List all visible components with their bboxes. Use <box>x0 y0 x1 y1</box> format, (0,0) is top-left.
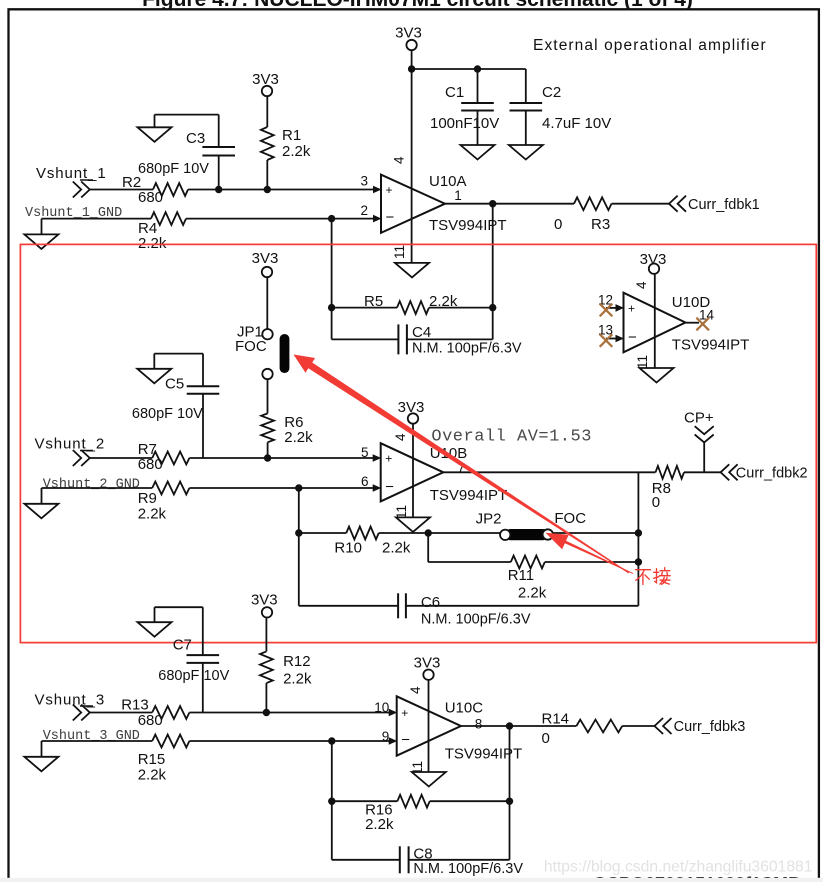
wire C3 to ground bend <box>155 115 219 147</box>
svg-text:3V3: 3V3 <box>252 250 279 267</box>
wire pin12 stub <box>606 307 616 309</box>
power 3V3 (JP1) <box>252 250 279 277</box>
svg-text:Vshunt_1: Vshunt_1 <box>36 165 107 182</box>
red annotation box <box>20 244 816 642</box>
svg-text:2.2k: 2.2k <box>138 767 167 784</box>
resistor R16 <box>365 795 430 833</box>
svg-text:FOC: FOC <box>235 338 267 355</box>
wire R5 row <box>332 307 493 309</box>
junction rail-left <box>408 65 415 72</box>
resistor R6 <box>261 413 313 446</box>
svg-text:+: + <box>628 301 635 315</box>
svg-text:C5: C5 <box>165 376 184 393</box>
wire pin9 row <box>42 740 390 742</box>
pin 4 label U10C <box>408 686 423 694</box>
junction feedback pin9 <box>328 737 335 744</box>
svg-text:R14: R14 <box>542 711 570 728</box>
capacitor C4 <box>398 324 522 357</box>
svg-text:3V3: 3V3 <box>395 25 422 42</box>
no-connect X pin14 <box>696 318 709 331</box>
resistor R14 <box>542 711 623 748</box>
wire power pin U10B <box>412 424 414 518</box>
wire feedback right vert 2 <box>637 472 639 606</box>
capacitor C8 <box>400 846 524 878</box>
junction R16 left <box>328 798 335 805</box>
svg-text:2.2k: 2.2k <box>282 143 311 160</box>
red note text <box>636 568 671 585</box>
svg-text:−: − <box>628 329 637 346</box>
svg-text:4: 4 <box>392 156 407 164</box>
power 3V3 (R12) <box>251 592 278 618</box>
resistor R1 <box>261 127 311 160</box>
svg-text:680: 680 <box>138 189 163 206</box>
node Vshunt_3 <box>35 691 106 708</box>
ground C5 <box>137 369 171 384</box>
op-amp U10A <box>360 173 506 234</box>
svg-text:8: 8 <box>475 717 483 732</box>
svg-text:680pF 10V: 680pF 10V <box>158 668 229 684</box>
svg-text:680pF 10V: 680pF 10V <box>138 161 209 177</box>
svg-text:4: 4 <box>408 686 423 694</box>
junction R12 bottom <box>263 709 270 716</box>
wire C1 drop <box>477 69 479 103</box>
svg-text:TSV994IPT: TSV994IPT <box>429 217 507 234</box>
node Vshunt_2 <box>35 436 106 453</box>
title (clipped at top) <box>142 0 693 11</box>
node CP+ <box>684 410 714 427</box>
ground U10B pin11 <box>396 517 430 532</box>
wire feedback left vert 2 <box>298 488 300 606</box>
resistor R10 <box>334 527 410 557</box>
svg-text:N.M. 100pF/6.3V: N.M. 100pF/6.3V <box>412 341 522 357</box>
svg-text:R10: R10 <box>334 540 362 557</box>
ground Vshunt_3_GND <box>24 757 58 772</box>
svg-text:C3: C3 <box>186 130 205 147</box>
wire C4 row <box>332 338 493 340</box>
wire pin3 row <box>90 189 374 191</box>
junction R16 right <box>506 798 513 805</box>
red arrow to JP2 <box>546 533 634 574</box>
wire pin10 row <box>90 712 389 714</box>
ground Vshunt_2_GND <box>24 504 58 519</box>
junction R5 right <box>489 304 496 311</box>
ground C1 <box>461 145 495 160</box>
ground Vshunt_1_GND <box>24 234 58 249</box>
connector Vshunt_1 <box>73 182 90 198</box>
resistor R4 <box>138 212 186 252</box>
svg-text:TSV994IPT: TSV994IPT <box>672 337 750 354</box>
wire pin2 row <box>42 218 374 220</box>
svg-text:N.M. 100pF/6.3V: N.M. 100pF/6.3V <box>421 612 531 628</box>
svg-text:N.M. 100pF/6.3V: N.M. 100pF/6.3V <box>413 861 523 877</box>
pin 11 label U10C <box>410 761 425 775</box>
junction JP2 right <box>635 529 642 536</box>
wire feedback right vert 1 <box>492 204 494 340</box>
wire R1 bottom <box>266 160 268 190</box>
svg-text:R11: R11 <box>508 567 534 584</box>
svg-text:−: − <box>401 732 410 749</box>
junction output U10A <box>489 200 496 207</box>
svg-text:−: − <box>386 209 395 226</box>
wire power pin U10C <box>428 680 430 772</box>
junction R1 tap <box>264 186 271 193</box>
svg-text:FOC: FOC <box>554 510 586 527</box>
svg-text:Figure 4.7: NUCLEO-IHM07M1 cir: Figure 4.7: NUCLEO-IHM07M1 circuit schem… <box>142 0 693 11</box>
svg-text:3V3: 3V3 <box>398 399 425 416</box>
svg-text:2.2k: 2.2k <box>284 429 313 446</box>
svg-text:4.7uF 10V: 4.7uF 10V <box>542 115 611 132</box>
svg-text:1: 1 <box>454 188 462 203</box>
wire output U10B <box>443 471 720 473</box>
wire R6 bottom <box>267 442 269 458</box>
no-connect X pin12 <box>600 304 613 317</box>
svg-text:3V3: 3V3 <box>640 251 667 268</box>
junction R10 right <box>425 529 432 536</box>
wire R11 drop <box>427 533 429 562</box>
resistor R15 <box>138 735 190 784</box>
wire C7 to ground bend <box>155 607 203 655</box>
svg-text:2.2k: 2.2k <box>138 506 167 523</box>
capacitor C1 <box>430 84 499 132</box>
svg-text:3: 3 <box>360 174 368 189</box>
wire C1 to ground <box>477 111 479 146</box>
bottom page strip <box>0 878 823 882</box>
svg-text:Curr_fdbk2: Curr_fdbk2 <box>736 466 808 482</box>
wire output U10C <box>461 725 655 727</box>
wire to ground 1 <box>41 219 43 235</box>
wire 3V3 to rail <box>411 50 413 69</box>
node Vshunt_3_GND <box>43 729 140 744</box>
jumper JP2 <box>476 510 587 540</box>
connector Vshunt_2 <box>73 450 90 466</box>
wire C5 to ground bend <box>154 354 203 387</box>
pin 11 label U10D <box>635 355 650 369</box>
connector Curr_fdbk1 <box>669 196 760 213</box>
svg-text:3V3: 3V3 <box>252 71 279 88</box>
svg-text:2.2k: 2.2k <box>283 671 312 688</box>
svg-text:R1: R1 <box>282 127 301 144</box>
junction R6 bottom <box>264 454 271 461</box>
svg-text:11: 11 <box>392 245 407 259</box>
wire to ground 2 <box>41 488 43 504</box>
op-amp U10B <box>361 443 507 504</box>
svg-text:+: + <box>385 452 392 466</box>
power 3V3 (rail) <box>395 25 422 51</box>
svg-text:2.2k: 2.2k <box>138 235 167 252</box>
pin 11 label U10B <box>394 505 409 519</box>
wire pin6 row <box>42 487 374 489</box>
svg-text:4: 4 <box>393 433 408 441</box>
capacitor C5 <box>132 376 219 422</box>
wire power pin U10A <box>411 69 413 263</box>
resistor R8 <box>652 466 684 511</box>
resistor R12 <box>260 651 312 687</box>
node Vshunt_2_GND <box>43 478 140 493</box>
node Vshunt_1 <box>36 165 107 182</box>
connector Vshunt_3 <box>73 705 90 721</box>
node Vshunt_1_GND <box>25 206 122 221</box>
junction R11 right <box>635 558 642 565</box>
op-amp U10C <box>374 696 522 762</box>
svg-text:R3: R3 <box>591 216 610 233</box>
wire to ground 3 <box>41 741 43 757</box>
red arrow to JP1 <box>294 355 630 574</box>
junction R5 left <box>328 304 335 311</box>
ground C2 <box>509 145 543 160</box>
svg-text:10: 10 <box>374 700 389 715</box>
svg-text:680: 680 <box>138 456 163 473</box>
svg-text:JP2: JP2 <box>476 511 502 528</box>
resistor R11 <box>508 556 547 602</box>
capacitor C7 <box>158 637 229 685</box>
no-connect X pin13 <box>600 334 613 347</box>
svg-text:C6: C6 <box>421 594 440 611</box>
wire R12 bottom <box>265 683 267 712</box>
svg-text:2.2k: 2.2k <box>518 585 547 602</box>
svg-text:External operational amplifier: External operational amplifier <box>533 37 767 54</box>
svg-text:6: 6 <box>361 474 369 489</box>
wire pin13 stub <box>606 338 616 340</box>
svg-text:C7: C7 <box>173 637 192 654</box>
jumper JP1 <box>235 324 289 380</box>
ground C3 <box>138 127 172 142</box>
svg-text:11: 11 <box>635 355 650 369</box>
wire C6 row <box>299 605 639 607</box>
svg-text:+: + <box>386 183 393 197</box>
svg-text:CP+: CP+ <box>684 410 714 427</box>
connector Curr_fdbk2 <box>721 464 808 481</box>
svg-text:C8: C8 <box>413 846 432 863</box>
wire feedback left vert 3 <box>331 741 333 860</box>
junction C1 tap <box>474 65 481 72</box>
wire C2 drop <box>525 69 527 103</box>
resistor R13 <box>121 697 189 730</box>
svg-text:TSV994IPT: TSV994IPT <box>445 746 523 763</box>
svg-text:2.2k: 2.2k <box>365 816 394 833</box>
svg-text:Curr_fdbk3: Curr_fdbk3 <box>674 719 746 735</box>
wire C8 row <box>332 859 510 861</box>
junction feedback pin6 <box>295 484 302 491</box>
capacitor C3 <box>138 130 235 177</box>
junction feedback pin2 <box>328 215 335 222</box>
svg-text:TSV994IPT: TSV994IPT <box>430 487 508 504</box>
svg-text:R13: R13 <box>121 697 149 714</box>
pin 4 label U10A <box>392 156 407 164</box>
power 3V3 (R1) <box>252 71 279 96</box>
connector Curr_fdbk3 <box>655 718 746 735</box>
ground U10D pin11 <box>640 368 674 383</box>
wire R11 row <box>428 561 638 563</box>
svg-text:C4: C4 <box>412 324 431 341</box>
note Overall AV <box>431 428 592 447</box>
junction C3 tap <box>215 186 222 193</box>
connector CP+ <box>695 426 714 442</box>
svg-text:Curr_fdbk1: Curr_fdbk1 <box>688 197 760 213</box>
svg-text:0: 0 <box>554 216 562 233</box>
power 3V3 (U10C) <box>414 655 441 680</box>
wire R10 row <box>299 532 639 534</box>
ground U10C pin11 <box>412 772 446 787</box>
wire output U10A <box>445 203 669 205</box>
op-amp U10D <box>598 293 749 354</box>
watermark <box>544 858 813 875</box>
svg-text:0: 0 <box>542 730 550 747</box>
wire C2 to ground <box>525 111 527 146</box>
svg-text:9: 9 <box>382 729 390 744</box>
svg-text:4: 4 <box>634 281 649 289</box>
svg-text:5: 5 <box>361 445 369 460</box>
wire feedback left vert 1 <box>331 219 333 340</box>
junction output U10C <box>506 722 513 729</box>
svg-text:680: 680 <box>138 712 163 729</box>
svg-text:C1: C1 <box>445 84 464 101</box>
svg-text:Vshunt_2_GND: Vshunt_2_GND <box>43 478 140 493</box>
wire pin14 stub <box>685 322 699 324</box>
ground U10A pin11 <box>395 263 429 278</box>
wire JP1 to R6 <box>267 379 269 413</box>
svg-text:2.2k: 2.2k <box>382 540 411 557</box>
wire feedback right vert 3 <box>509 726 511 860</box>
wire C7 bottom <box>202 663 204 713</box>
svg-text:Vshunt_2: Vshunt_2 <box>35 436 106 453</box>
svg-text:R5: R5 <box>364 293 383 310</box>
wire rail <box>412 68 526 70</box>
wire R16 row <box>332 800 510 802</box>
svg-text:2.2k: 2.2k <box>429 293 458 310</box>
heading External operational amplifier <box>533 37 767 54</box>
resistor R2 <box>122 174 188 206</box>
pin 4 label U10B <box>393 433 408 441</box>
wire C3 bottom <box>218 156 220 190</box>
pin 4 label U10D <box>634 281 649 289</box>
wire R12 top <box>265 618 267 652</box>
svg-text:+: + <box>401 706 408 720</box>
capacitor C6 <box>398 593 531 627</box>
svg-text:680pF 10V: 680pF 10V <box>132 406 203 422</box>
resistor R5 <box>364 293 458 314</box>
svg-text:R15: R15 <box>138 751 166 768</box>
svg-text:C2: C2 <box>542 84 561 101</box>
power 3V3 (U10D) <box>640 251 667 274</box>
svg-text:R9: R9 <box>138 490 157 507</box>
wire R1 top <box>266 96 268 127</box>
svg-text:R12: R12 <box>283 653 311 670</box>
resistor R7 <box>138 441 190 473</box>
svg-text:U10C: U10C <box>445 700 484 717</box>
wire power pin U10D <box>654 274 656 368</box>
svg-text:https://blog.csdn.net/zhanglif: https://blog.csdn.net/zhanglifu3601881 <box>544 858 813 875</box>
wire CP+ drop <box>703 443 705 473</box>
resistor R9 <box>138 482 190 523</box>
wire 3V3 to JP1 <box>266 277 268 329</box>
svg-text:3V3: 3V3 <box>251 592 278 609</box>
svg-text:2: 2 <box>360 203 368 218</box>
pin 11 label U10A <box>392 245 407 259</box>
bottom code (clipped) <box>593 874 801 882</box>
svg-text:−: − <box>385 479 394 496</box>
power 3V3 (U10B) <box>398 399 425 424</box>
capacitor C2 <box>510 84 612 132</box>
resistor R3 <box>554 197 612 233</box>
ground C7 <box>138 622 172 637</box>
svg-text:Vshunt_3: Vshunt_3 <box>35 691 106 708</box>
wire C5 bottom <box>202 394 204 458</box>
svg-text:0: 0 <box>652 494 660 511</box>
wire pin5 row <box>90 457 373 459</box>
svg-text:3V3: 3V3 <box>414 655 441 672</box>
junction R10 left <box>295 529 302 536</box>
svg-text:100nF10V: 100nF10V <box>430 115 499 132</box>
svg-text:Overall AV=1.53: Overall AV=1.53 <box>431 428 592 447</box>
